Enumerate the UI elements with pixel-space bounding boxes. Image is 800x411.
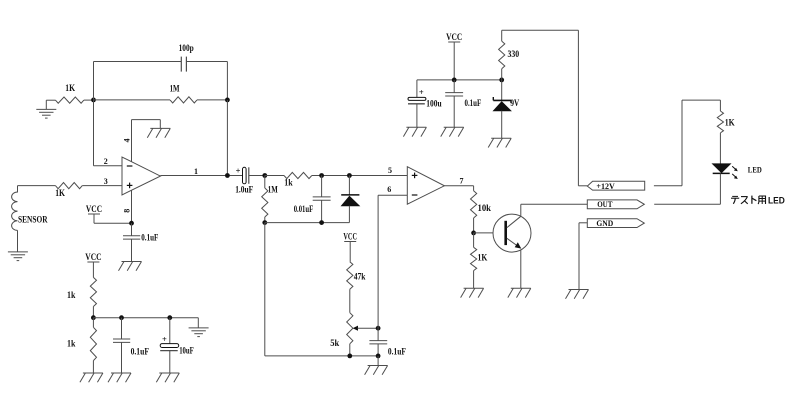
value label 5k <box>330 338 339 348</box>
capacitor 100u (electrolytic) <box>408 80 426 127</box>
power symbol VCC (pot bias) <box>343 231 357 261</box>
wire (collector to OUT) <box>521 203 588 205</box>
svg-text:+12V: +12V <box>596 181 615 191</box>
svg-text:5k: 5k <box>330 338 339 348</box>
power symbol VCC (main) <box>446 32 462 80</box>
resistor 1k (upper divider) <box>90 277 96 317</box>
wire <box>18 185 56 187</box>
wire (lower rail) <box>265 222 350 224</box>
wire <box>82 185 122 187</box>
node junction (output/feedback) <box>225 173 230 178</box>
value label 9V <box>510 98 519 108</box>
pot wiper arrow <box>353 326 379 331</box>
svg-text:3: 3 <box>104 177 108 186</box>
label LED <box>748 166 762 175</box>
svg-text:0.1uF: 0.1uF <box>388 347 406 357</box>
value label 0.1uF <box>465 98 482 108</box>
wire (GND flag to ground) <box>579 223 587 290</box>
wire <box>197 99 227 101</box>
svg-text:OUT: OUT <box>597 199 613 209</box>
node junction <box>262 173 267 178</box>
wire <box>17 230 19 252</box>
svg-text:+: + <box>162 334 167 344</box>
pin 1 output wire <box>160 175 242 177</box>
svg-text:1.0uF: 1.0uF <box>235 184 253 194</box>
wire <box>94 62 182 100</box>
node junction <box>262 220 267 225</box>
resistor 1K (feedback to ground) <box>55 97 84 103</box>
capacitor 10uF (electrolytic) <box>160 318 179 373</box>
wire (supply rail) <box>417 79 502 81</box>
value label 1K <box>725 118 735 128</box>
svg-text:0.1uF: 0.1uF <box>465 98 482 108</box>
resistor 1M (to lower rail) <box>262 176 268 223</box>
node junction <box>499 78 504 83</box>
pin label 1 <box>194 167 198 176</box>
svg-text:1M: 1M <box>170 84 180 94</box>
svg-text:1k: 1k <box>67 339 75 349</box>
value label 0.1uF <box>131 347 150 357</box>
svg-text:8: 8 <box>123 209 132 213</box>
value label 10uF <box>179 345 194 355</box>
ground (chassis) under zener <box>488 138 511 147</box>
wire (to +12V flag) <box>502 30 588 186</box>
svg-text:LED: LED <box>768 195 785 206</box>
value label 1k <box>67 290 75 300</box>
node junction <box>167 315 172 320</box>
node junction <box>452 78 457 83</box>
value label 330 <box>508 49 520 59</box>
ground (chassis) for GND flag <box>566 290 589 299</box>
svg-text:4: 4 <box>122 139 131 143</box>
pin 4 wire <box>132 120 161 162</box>
value label 1K <box>65 83 75 93</box>
capacitor 1.0uF (electrolytic, coupling) <box>243 167 249 184</box>
node junction (base drive) <box>471 231 476 236</box>
diode (clamp) <box>341 176 359 223</box>
resistor 1K (base divider) <box>471 233 477 288</box>
wire (bias rail) <box>93 317 198 319</box>
svg-text:1K: 1K <box>478 253 488 263</box>
connector flag OUT <box>587 199 644 209</box>
value label 1k <box>284 177 292 187</box>
op-amp U1 triangle <box>122 157 160 195</box>
value label 1.0uF <box>235 184 253 194</box>
wire <box>197 318 199 328</box>
ground (chassis) under 0.1uF <box>108 373 131 382</box>
power symbol VCC (U1 supply) <box>86 204 102 223</box>
ground (chassis) under 0.1uF <box>441 127 464 136</box>
polarity + label <box>162 334 167 344</box>
svg-text:0.1uF: 0.1uF <box>131 347 150 357</box>
resistor 1K (LED series) <box>717 100 723 164</box>
node junction (feedback/output) <box>225 98 230 103</box>
pin label 2 <box>104 157 108 166</box>
pin label 4 (rotated) <box>122 139 131 143</box>
pin label 6 <box>387 185 391 194</box>
wire (base) <box>474 232 493 234</box>
wire <box>94 222 132 224</box>
inductor SENSOR <box>12 186 18 231</box>
node junction <box>376 354 381 359</box>
svg-text:+: + <box>236 165 241 175</box>
value label 1M <box>268 184 278 194</box>
wire (+12V to LED branch) <box>654 100 721 186</box>
svg-text:0.01uF: 0.01uF <box>294 204 314 214</box>
wire <box>94 99 171 101</box>
emitter wire <box>520 250 522 288</box>
wire <box>312 175 408 177</box>
ground (chassis) under 100u <box>403 127 426 136</box>
pin 7 output wire <box>444 186 473 191</box>
transistor Q1 (NPN) <box>493 214 531 252</box>
svg-text:7: 7 <box>460 176 464 185</box>
node junction (U1 supply) <box>129 221 134 226</box>
LED (test) <box>713 164 738 204</box>
capacitor 0.1uF (U1 bypass) <box>123 223 140 261</box>
wire (pin 6 net) <box>377 195 379 340</box>
value label 1k <box>67 339 75 349</box>
label テスト用LED - LED <box>768 195 785 206</box>
node junction (bias node) <box>91 315 96 320</box>
svg-text:330: 330 <box>508 49 520 59</box>
value label 0.1uF <box>141 233 158 243</box>
pin 8 wire <box>131 190 133 223</box>
value label 100p <box>179 43 194 53</box>
ground (chassis) at pin 4 <box>147 128 170 137</box>
value label 0.01uF <box>294 204 314 214</box>
svg-text:1k: 1k <box>284 177 292 187</box>
node junction (inverting input net) <box>91 98 96 103</box>
resistor 330 <box>499 30 505 80</box>
wire <box>378 194 407 196</box>
svg-text:5: 5 <box>388 166 392 175</box>
wire <box>226 100 228 176</box>
zener diode 9V <box>493 80 511 138</box>
svg-text:9V: 9V <box>510 98 519 108</box>
svg-text:2: 2 <box>104 157 108 166</box>
node junction <box>319 220 324 225</box>
capacitor 100p <box>181 57 186 72</box>
pin label 7 <box>460 176 464 185</box>
wire <box>186 62 227 100</box>
resistor 1K (sensor series) <box>55 183 82 189</box>
svg-text:1k: 1k <box>67 290 75 300</box>
op-amp U2 triangle <box>407 167 444 205</box>
wire <box>46 99 55 101</box>
wire (pin 2 net) <box>94 100 123 166</box>
ground (earth) at 1K feedback resistor <box>36 100 56 118</box>
wire <box>265 223 378 356</box>
node junction (wiper) <box>376 326 381 331</box>
svg-text:LED: LED <box>748 166 762 175</box>
value label 1M <box>170 84 180 94</box>
value label 100u <box>426 98 441 108</box>
value label 0.1uF <box>388 347 406 357</box>
ground (chassis) under 1K <box>461 288 484 297</box>
ground (chassis) middle <box>365 366 388 375</box>
polarity + label <box>236 165 241 175</box>
wire (signal rail) <box>265 175 284 177</box>
svg-text:1K: 1K <box>65 83 75 93</box>
svg-text:10uF: 10uF <box>179 345 194 355</box>
power symbol VCC (bias divider) <box>85 252 101 278</box>
op-amp U2 minus symbol <box>412 194 418 196</box>
svg-text:1M: 1M <box>268 184 278 194</box>
svg-text:1K: 1K <box>725 118 735 128</box>
op-amp U1 minus symbol <box>127 165 133 167</box>
node junction <box>319 173 324 178</box>
connector flag +12V <box>587 181 644 191</box>
resistor 1M (feedback) <box>170 97 197 103</box>
svg-text:VCC: VCC <box>343 231 357 241</box>
value label 1K <box>478 253 488 263</box>
ground (chassis) under U1 bypass cap <box>119 262 142 271</box>
wire <box>377 356 379 366</box>
ground (chassis) under divider <box>80 373 103 382</box>
node junction (pot bottom) <box>347 354 352 359</box>
capacitor 0.1uF (supply bypass) <box>445 80 463 127</box>
potentiometer 5k <box>347 313 353 356</box>
svg-text:VCC: VCC <box>85 252 101 262</box>
node junction <box>119 315 124 320</box>
value label 47k <box>354 271 366 281</box>
wire (OUT to LED branch) <box>654 203 720 205</box>
svg-text:100p: 100p <box>179 43 194 53</box>
ground (chassis) under emitter <box>508 288 531 297</box>
svg-text:VCC: VCC <box>446 32 462 42</box>
op-amp U1 plus symbol <box>127 183 133 189</box>
label テスト用LED (test LED) - テ <box>731 196 739 203</box>
label テスト用LED - ス <box>741 197 748 204</box>
svg-text:VCC: VCC <box>86 204 102 214</box>
resistor 10k <box>471 191 477 233</box>
value label 10k <box>478 203 492 213</box>
svg-text:10k: 10k <box>478 203 492 213</box>
ground (chassis) under 10uF <box>156 373 179 382</box>
svg-text:6: 6 <box>387 185 391 194</box>
svg-text:47k: 47k <box>354 271 366 281</box>
polarity + label <box>419 87 424 97</box>
value label 1K <box>55 188 65 198</box>
pin label 5 <box>388 166 392 175</box>
op-amp U2 plus symbol <box>412 173 418 179</box>
resistor 1k (series) <box>284 172 312 178</box>
collector wire <box>520 204 522 216</box>
pin label 8 (rotated) <box>123 209 132 213</box>
svg-text:1: 1 <box>194 167 198 176</box>
resistor 1k (lower divider) <box>90 318 96 373</box>
svg-text:SENSOR: SENSOR <box>18 215 48 225</box>
svg-text:0.1uF: 0.1uF <box>141 233 158 243</box>
svg-text:+: + <box>419 87 424 97</box>
label SENSOR <box>18 215 48 225</box>
ground (earth) under SENSOR <box>8 252 28 261</box>
label テスト用LED - ト <box>752 196 757 204</box>
svg-text:1K: 1K <box>55 188 65 198</box>
connector flag GND <box>587 218 644 228</box>
capacitor 0.01uF <box>313 176 331 223</box>
svg-text:100u: 100u <box>426 98 441 108</box>
ground (earth) right of bias rail <box>189 328 209 337</box>
resistor 47k <box>347 262 353 313</box>
capacitor 0.1uF (bias bypass) <box>113 318 130 373</box>
capacitor 0.1uF (wiper to gnd) <box>369 341 387 356</box>
node junction <box>347 173 352 178</box>
svg-text:GND: GND <box>596 218 613 228</box>
label テスト用LED - 用 <box>758 196 766 204</box>
wire <box>84 99 94 101</box>
pin label 3 <box>104 177 108 186</box>
wire <box>249 175 265 177</box>
